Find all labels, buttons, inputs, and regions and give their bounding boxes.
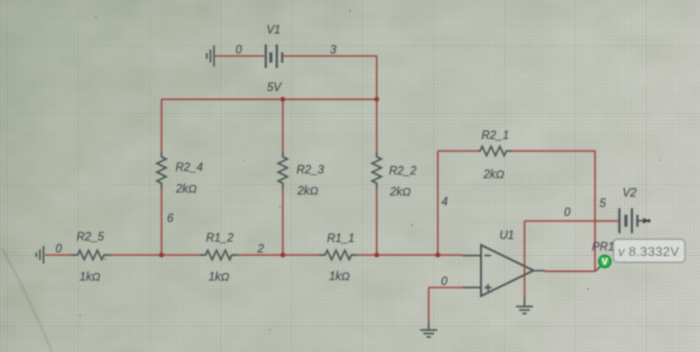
svg-text:0: 0 (236, 45, 243, 57)
svg-text:R2_1: R2_1 (482, 130, 510, 142)
svg-text:0: 0 (441, 276, 448, 288)
svg-text:R1_1: R1_1 (327, 233, 355, 245)
svg-text:R2_3: R2_3 (297, 165, 325, 177)
svg-text:5V: 5V (267, 82, 282, 94)
svg-text:2kΩ: 2kΩ (297, 186, 319, 198)
svg-text:6: 6 (167, 213, 174, 225)
svg-text:R2_5: R2_5 (77, 232, 105, 244)
svg-text:1kΩ: 1kΩ (209, 272, 230, 284)
svg-text:V2: V2 (623, 188, 638, 200)
svg-text:PR1: PR1 (592, 242, 614, 254)
svg-text:2: 2 (257, 244, 265, 256)
svg-text:U1: U1 (500, 230, 515, 242)
svg-text:0: 0 (564, 207, 571, 219)
svg-text:1kΩ: 1kΩ (80, 272, 101, 284)
svg-text:2kΩ: 2kΩ (483, 169, 505, 181)
svg-text:3: 3 (330, 45, 337, 57)
svg-text:5: 5 (600, 198, 607, 210)
svg-text:R2_4: R2_4 (176, 162, 204, 174)
svg-text:R1_2: R1_2 (206, 233, 234, 245)
svg-text:2kΩ: 2kΩ (175, 184, 197, 196)
svg-text:V1: V1 (267, 25, 281, 37)
svg-text:1kΩ: 1kΩ (329, 271, 350, 283)
svg-text:R2_2: R2_2 (389, 166, 417, 178)
svg-text:V: V (602, 257, 608, 267)
svg-text:v 8.3332V: v 8.3332V (618, 244, 679, 259)
svg-text:0: 0 (56, 244, 63, 256)
svg-text:4: 4 (442, 197, 448, 209)
svg-text:2kΩ: 2kΩ (389, 187, 411, 199)
